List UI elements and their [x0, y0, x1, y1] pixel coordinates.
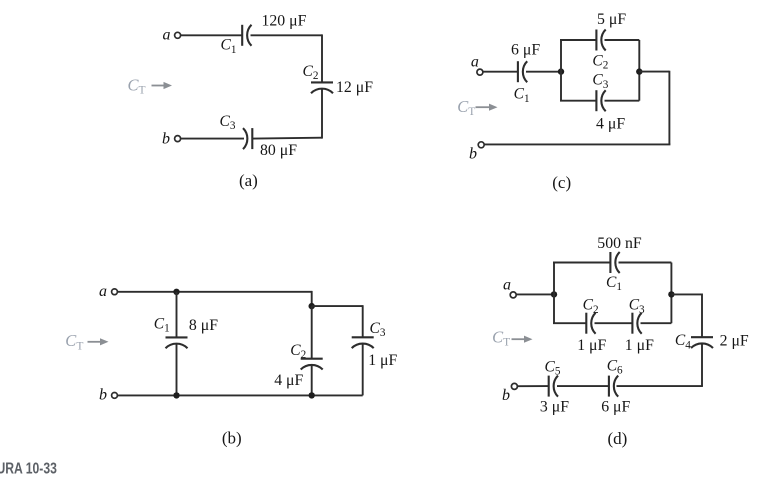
label C1	[606, 274, 622, 293]
wire top branch right	[619, 262, 672, 264]
node b terminal (circuit d)	[511, 383, 517, 389]
node b terminal (circuit c)	[478, 142, 484, 148]
svg-text:C3: C3	[629, 297, 645, 316]
junction left node	[558, 68, 564, 74]
wire bottom rail right segment	[617, 385, 703, 387]
capacitor C2 (1 uF)	[586, 313, 595, 334]
label C3	[220, 113, 236, 132]
svg-text:C2: C2	[592, 52, 608, 71]
svg-text:4 μF: 4 μF	[596, 115, 625, 132]
wire between C2 and C3	[595, 322, 633, 324]
label b (circuit c)	[469, 145, 477, 162]
svg-text:3 μF: 3 μF	[540, 399, 569, 416]
capacitor C2 (12 uF)	[311, 82, 333, 93]
wire C1 to top-right corner	[251, 34, 323, 36]
wire C4 down to bottom rail	[701, 344, 703, 386]
total capacitance CT arrow (circuit b)	[65, 331, 108, 352]
wire down to C4	[701, 294, 703, 338]
value label 1 uF (C3)	[625, 337, 654, 354]
wire C1 to left node	[526, 71, 561, 73]
svg-text:C3: C3	[592, 72, 608, 91]
value label 8 uF	[189, 317, 218, 334]
node a terminal (circuit d)	[510, 292, 516, 298]
svg-text:a: a	[471, 53, 479, 70]
label a (circuit d)	[503, 276, 511, 293]
capacitor C1 (500 nF)	[610, 252, 619, 273]
label C2	[583, 297, 599, 316]
junction bottom of C2	[309, 392, 315, 398]
wire right edge down	[668, 71, 670, 145]
label b (circuit d)	[502, 387, 510, 404]
wire right side down to C2	[321, 34, 323, 82]
svg-text:(d): (d)	[607, 429, 627, 448]
wire top rail down to C1	[176, 292, 178, 338]
label C1	[154, 315, 170, 334]
node a terminal (circuit c)	[477, 69, 483, 75]
svg-text:C1: C1	[514, 86, 530, 105]
capacitor C3 (80 uF)	[243, 128, 252, 149]
svg-text:CT: CT	[65, 331, 83, 352]
caption (d)	[607, 429, 627, 448]
label C4	[675, 332, 691, 351]
junction C2/C3 branch	[309, 303, 315, 309]
svg-text:2 μF: 2 μF	[720, 333, 749, 350]
total capacitance CT arrow (circuit a)	[128, 75, 173, 96]
wire C1 down to bottom rail	[176, 344, 178, 395]
wire bottom branch left	[560, 100, 596, 102]
wire bottom rail	[118, 394, 363, 396]
label C2	[303, 63, 319, 82]
label a (circuit a)	[163, 26, 171, 43]
wire right corner down to junction	[311, 291, 313, 306]
svg-text:5 μF: 5 μF	[597, 11, 626, 28]
label C2	[290, 342, 306, 361]
wire bottom rail to b	[484, 143, 670, 145]
wire bottom to C3	[252, 137, 322, 140]
svg-text:1 μF: 1 μF	[577, 337, 606, 354]
svg-text:8 μF: 8 μF	[189, 317, 218, 334]
label C1	[514, 86, 530, 105]
capacitor C6 (6 uF)	[609, 376, 618, 397]
wire bottom branch right	[605, 100, 640, 102]
svg-text:6 μF: 6 μF	[601, 399, 630, 416]
value label 4 uF	[596, 115, 625, 132]
svg-text:C2: C2	[583, 297, 599, 316]
wire bottom branch left	[553, 322, 586, 324]
value label 120 uF	[262, 12, 307, 29]
capacitor C1 (8 uF)	[166, 337, 188, 348]
caption (b)	[222, 429, 242, 448]
capacitor C3 (1 uF)	[632, 313, 641, 334]
label C2	[592, 52, 608, 71]
wire C3 branch down to C3	[362, 305, 364, 337]
svg-text:120 μF: 120 μF	[262, 12, 307, 29]
caption (a)	[239, 171, 258, 190]
svg-text:80 μF: 80 μF	[260, 142, 297, 159]
label C3	[370, 320, 386, 339]
svg-text:b: b	[469, 145, 477, 162]
svg-text:C3: C3	[220, 113, 236, 132]
wire a to C1	[483, 71, 518, 73]
wire parallel box left side	[560, 40, 562, 101]
svg-text:C4: C4	[675, 332, 691, 351]
wire parallel box right side	[638, 40, 640, 101]
capacitor C1 (6 uF)	[518, 61, 527, 82]
wire a to C1	[181, 34, 242, 36]
value label 4 uF	[274, 372, 303, 389]
svg-text:C1: C1	[154, 315, 170, 334]
value label 500 nF	[597, 235, 642, 252]
wire a to left node	[516, 293, 554, 295]
capacitor C3 (1 uF)	[352, 337, 374, 348]
value label 6 uF	[511, 41, 540, 58]
wire bottom branch right	[641, 322, 672, 324]
svg-text:C5: C5	[545, 359, 561, 378]
svg-text:C2: C2	[290, 342, 306, 361]
junction left node	[551, 291, 557, 297]
svg-text:(a): (a)	[239, 171, 258, 190]
caption (c)	[552, 173, 571, 192]
wire parallel box left side	[553, 263, 555, 324]
label C1	[221, 37, 237, 56]
svg-text:C6: C6	[607, 358, 623, 377]
svg-text:(c): (c)	[552, 173, 571, 192]
wire right node to C4 branch	[671, 293, 702, 295]
svg-text:1 μF: 1 μF	[625, 337, 654, 354]
svg-text:CT: CT	[492, 327, 510, 348]
figure caption FIGURA 10-33 (clipped at left edge)	[0, 460, 57, 478]
label b (circuit b)	[99, 387, 107, 404]
junction bottom of C1	[173, 392, 179, 398]
svg-text:6 μF: 6 μF	[511, 41, 540, 58]
capacitor C5 (3 uF)	[549, 376, 558, 397]
label b (circuit a)	[162, 131, 170, 148]
label C3	[629, 297, 645, 316]
svg-text:(b): (b)	[222, 429, 242, 448]
svg-text:1 μF: 1 μF	[368, 352, 397, 369]
svg-text:URA 10-33: URA 10-33	[0, 460, 57, 478]
wire down to C2	[311, 306, 313, 359]
value label 6 uF	[601, 399, 630, 416]
svg-text:b: b	[99, 387, 107, 404]
node a terminal (circuit b)	[112, 289, 118, 295]
capacitor C2 (5 uF)	[596, 30, 605, 51]
label a (circuit b)	[99, 283, 107, 300]
wire C2 down to bottom-right corner	[321, 89, 323, 139]
svg-text:C2: C2	[303, 63, 319, 82]
svg-text:C1: C1	[221, 37, 237, 56]
value label 80 uF	[260, 142, 297, 159]
svg-text:a: a	[503, 276, 511, 293]
value label 5 uF	[597, 11, 626, 28]
wire top rail a to corner	[118, 291, 312, 293]
wire C2 down to bottom rail	[311, 365, 313, 395]
svg-text:500 nF: 500 nF	[597, 235, 642, 252]
svg-text:b: b	[502, 387, 510, 404]
total capacitance CT arrow (circuit c)	[457, 97, 497, 118]
value label 2 uF	[720, 333, 749, 350]
label C6	[607, 358, 623, 377]
capacitor C4 (2 uF)	[691, 337, 713, 348]
wire top branch left	[553, 262, 610, 264]
svg-text:b: b	[162, 131, 170, 148]
wire C3 to b	[181, 138, 244, 140]
wire top branch right	[605, 39, 640, 41]
wire between C5 and C6	[557, 385, 609, 387]
label C5	[545, 359, 561, 378]
svg-text:4 μF: 4 μF	[274, 372, 303, 389]
svg-text:CT: CT	[128, 75, 146, 96]
value label 1 uF	[368, 352, 397, 369]
label a (circuit c)	[471, 53, 479, 70]
capacitor C3 (4 uF)	[596, 90, 605, 111]
wire top branch left	[560, 39, 596, 41]
wire C3 down to bottom rail	[362, 344, 364, 396]
label C3	[592, 72, 608, 91]
wire C5 to b	[518, 385, 549, 387]
junction top of C1	[173, 289, 179, 295]
value label 1 uF (C2)	[577, 337, 606, 354]
node a terminal (circuit a)	[175, 32, 181, 38]
svg-text:C3: C3	[370, 320, 386, 339]
total capacitance CT arrow (circuit d)	[492, 327, 532, 348]
wire right node to right edge	[639, 71, 669, 73]
capacitor C1 (120 uF)	[242, 25, 251, 46]
junction right node	[636, 68, 642, 74]
junction right node	[668, 291, 674, 297]
svg-text:C1: C1	[606, 274, 622, 293]
value label 3 uF	[540, 399, 569, 416]
node b terminal (circuit a)	[175, 136, 181, 142]
wire parallel box right side	[670, 263, 672, 324]
capacitor C2 (4 uF)	[301, 359, 323, 370]
svg-text:12 μF: 12 μF	[336, 79, 373, 96]
svg-text:a: a	[99, 283, 107, 300]
value label 12 uF	[336, 79, 373, 96]
svg-text:a: a	[163, 26, 171, 43]
node b terminal (circuit b)	[112, 393, 118, 399]
wire junction to C3 branch	[312, 305, 363, 307]
svg-text:CT: CT	[457, 97, 475, 118]
